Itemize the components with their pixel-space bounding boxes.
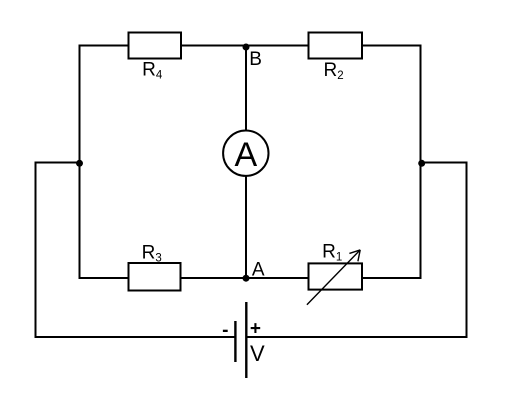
resistor R2	[309, 33, 363, 59]
wire top horizontal (R4-B-R2 rail)	[79, 45, 422, 47]
wire outer left vertical	[35, 162, 37, 339]
battery V: negative short plate	[234, 321, 236, 362]
resistor R1 (variable, with arrow)	[309, 263, 363, 289]
resistor R3	[129, 263, 181, 291]
node B junction dot	[243, 44, 250, 51]
resistor R4	[129, 33, 182, 59]
wire left bridge vertical	[79, 45, 81, 280]
battery V: positive long plate	[245, 302, 247, 378]
wire outer right vertical	[466, 162, 468, 339]
svg-text:A: A	[234, 136, 257, 174]
svg-text:B: B	[249, 49, 262, 70]
left junction dot	[76, 160, 83, 167]
wire mid-left stub to outer loop	[36, 162, 80, 164]
variable-resistor arrow over R1	[307, 250, 360, 305]
ammeter U1 (circle)	[223, 131, 268, 176]
right junction dot	[418, 160, 425, 167]
wire outer bottom left (to battery -)	[35, 336, 236, 338]
wire bottom bridge horizontal (R3-A-R1 rail)	[79, 277, 422, 279]
svg-text:+: +	[250, 319, 261, 340]
wire outer bottom right (from battery +)	[246, 336, 467, 338]
wire center vertical B to A through ammeter	[245, 46, 247, 279]
node A junction dot	[243, 275, 250, 282]
svg-text:-: -	[222, 320, 228, 341]
svg-text:V: V	[250, 341, 265, 366]
wire right bridge vertical	[420, 45, 422, 280]
wire mid-right stub to outer loop	[421, 162, 467, 164]
svg-text:A: A	[252, 259, 265, 280]
